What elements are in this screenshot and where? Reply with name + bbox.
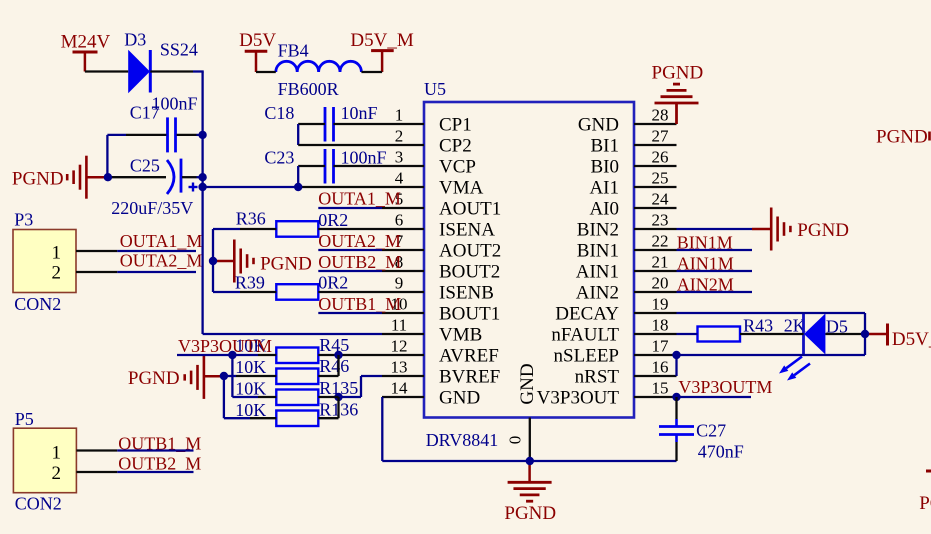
svg-text:BVREF: BVREF: [439, 367, 500, 388]
svg-text:ISENA: ISENA: [439, 220, 495, 241]
svg-text:100nF: 100nF: [341, 148, 387, 168]
U5 pin 24 (AI0): [589, 190, 676, 220]
svg-text:nFAULT: nFAULT: [551, 325, 619, 346]
svg-text:BI1: BI1: [591, 136, 620, 157]
wire C23 right to pin 3: [334, 165, 383, 167]
svg-text:D5V_M: D5V_M: [350, 30, 413, 51]
svg-text:BOUT1: BOUT1: [439, 304, 500, 325]
U5 pin 23 (BIN2): [577, 211, 677, 241]
wire pin 13 BVREF step: [339, 376, 383, 397]
junction PGND-C17-C25: [104, 173, 112, 181]
wire OUTA2_M (pin 7): [318, 249, 382, 251]
svg-text:11: 11: [391, 316, 407, 335]
svg-text:2: 2: [52, 263, 62, 284]
svg-text:10K: 10K: [235, 379, 266, 399]
wire R45 left: [232, 354, 276, 356]
wire D5V to FB4: [256, 71, 276, 73]
resistor R136: [276, 411, 318, 427]
ground PGND (earth, bottom): [504, 461, 556, 524]
svg-text:CON2: CON2: [15, 494, 62, 514]
wire OUTB2_M (pin 8): [318, 270, 382, 272]
wire V3P3OUT rail: [231, 355, 233, 397]
svg-text:VMB: VMB: [439, 325, 482, 346]
svg-text:CP2: CP2: [439, 136, 472, 157]
svg-text:2: 2: [395, 127, 404, 146]
svg-text:OUTA1_M: OUTA1_M: [318, 189, 401, 209]
wire C25 right: [182, 176, 203, 178]
wire V3P3OUTM stub: [177, 354, 232, 356]
svg-text:nRST: nRST: [575, 367, 620, 388]
junction C17-rail: [198, 131, 206, 139]
svg-text:AIN2: AIN2: [576, 283, 619, 304]
U5 pin 11 (VMB): [382, 316, 482, 346]
svg-text:OUTB2_M: OUTB2_M: [118, 454, 201, 474]
svg-text:PGND: PGND: [652, 63, 704, 84]
svg-text:OUTA2_M: OUTA2_M: [318, 231, 401, 251]
svg-text:BIN2: BIN2: [577, 220, 619, 241]
power D5V_M (top): [350, 30, 413, 72]
U5 pin 14 (GND): [382, 379, 480, 409]
wire PGND rail (divider): [223, 376, 225, 418]
U5 pin 12 (AVREF): [382, 337, 499, 367]
capacitor C27: [659, 427, 694, 435]
wire R36 left: [213, 228, 276, 230]
U5 pin 19 (DECAY): [555, 295, 676, 325]
svg-text:DECAY: DECAY: [555, 304, 619, 325]
svg-text:GND: GND: [439, 388, 480, 409]
U5 pin 16 (nRST): [575, 358, 677, 388]
U5 pin 26 (BI0): [591, 148, 677, 178]
wire OUTA2_M (P3): [117, 271, 196, 273]
svg-text:470nF: 470nF: [698, 442, 744, 462]
svg-text:R43: R43: [743, 316, 773, 336]
U5 pin 2 (CP2): [382, 127, 472, 157]
U5 pin 9 (ISENB): [382, 274, 494, 304]
svg-text:OUTB1_M: OUTB1_M: [318, 294, 401, 314]
svg-text:U5: U5: [424, 79, 446, 99]
svg-text:PGND: PGND: [797, 220, 849, 241]
U5 pin 22 (BIN1): [577, 232, 677, 262]
wire C17 left: [107, 135, 166, 177]
wire C17 right: [177, 134, 203, 136]
power D5V: [239, 30, 276, 72]
svg-text:PGND: PGND: [876, 127, 928, 148]
U5 pin 0 (GND pad): [506, 363, 539, 461]
junction AVREF: [334, 351, 342, 359]
LED D5: [804, 313, 826, 355]
svg-text:17: 17: [652, 337, 670, 356]
svg-text:21: 21: [652, 253, 669, 272]
svg-text:OUTA2_M: OUTA2_M: [120, 251, 203, 271]
svg-text:V3P3OUT: V3P3OUT: [537, 388, 620, 409]
junction rail-VMA: [198, 183, 206, 191]
U5 pin 4 (VMA): [382, 169, 484, 199]
wire R135 left: [232, 396, 276, 398]
svg-text:22: 22: [652, 232, 669, 251]
wire pin 17 nSLEEP: [677, 354, 866, 356]
P3 pin 1: [76, 250, 117, 252]
svg-text:P5: P5: [15, 409, 34, 429]
resistor R43: [698, 327, 741, 342]
svg-text:C27: C27: [696, 421, 726, 441]
wire bottom GND bus: [382, 460, 676, 462]
junction sense-PGND: [209, 257, 217, 265]
ground PGND (near C25): [12, 156, 108, 199]
U5 pin 15 (V3P3OUT): [537, 379, 677, 409]
svg-text:4: 4: [395, 169, 404, 188]
svg-text:18: 18: [652, 316, 669, 335]
U5 pin 27 (BI1): [591, 127, 677, 157]
svg-text:100nF: 100nF: [152, 94, 198, 114]
wire pin 18 to R43: [677, 333, 698, 335]
svg-text:13: 13: [391, 358, 408, 377]
svg-text:23: 23: [652, 211, 669, 230]
wire C18 left to pin 2: [298, 124, 382, 145]
svg-text:R45: R45: [319, 335, 349, 355]
svg-text:10nF: 10nF: [341, 103, 378, 123]
svg-text:14: 14: [391, 379, 409, 398]
wire R43 to D5: [740, 333, 804, 335]
svg-text:VCP: VCP: [439, 157, 476, 178]
junction C23-VMA: [294, 183, 302, 191]
wire R135 right: [318, 396, 338, 398]
svg-text:20: 20: [652, 274, 669, 293]
capacitor C17: [168, 117, 176, 152]
wire C23 left to pin 4: [298, 166, 325, 187]
wire R45 right to pin 12: [318, 354, 382, 356]
U5 pin 1 (CP1): [382, 106, 472, 136]
wire R46 left: [224, 375, 276, 377]
svg-text:12: 12: [391, 337, 408, 356]
svg-text:V3P3OUTM: V3P3OUTM: [178, 336, 272, 356]
wire nRST to nSLEEP: [675, 355, 677, 376]
connector P5: [13, 428, 76, 493]
svg-text:1: 1: [52, 242, 62, 263]
wire R39 right: [318, 291, 382, 293]
ground PGND (earth, pin 28): [652, 63, 704, 125]
wire OUTB1_M (pin 10): [318, 312, 382, 314]
svg-text:6: 6: [395, 211, 404, 230]
U5 pin 25 (AI1): [589, 169, 676, 199]
svg-text:24: 24: [652, 190, 670, 209]
resistor R45: [276, 348, 318, 364]
svg-text:25: 25: [652, 169, 669, 188]
wire AIN1M (pin 21): [677, 270, 753, 272]
svg-text:CP1: CP1: [439, 115, 472, 136]
svg-text:FB600R: FB600R: [278, 79, 339, 99]
svg-text:3: 3: [395, 148, 404, 167]
svg-text:R46: R46: [319, 356, 349, 376]
U5 pin 10 (BOUT1): [382, 295, 500, 325]
power M24V: [61, 32, 111, 72]
wire R36 right: [318, 228, 382, 230]
ground PGND (divider): [128, 356, 224, 399]
wire C18 right to pin 1: [334, 123, 383, 125]
U5 pin 28 (GND): [578, 106, 677, 136]
svg-text:nSLEEP: nSLEEP: [554, 346, 619, 367]
svg-text:D5V: D5V: [239, 30, 276, 51]
wire pin 28 to earth: [675, 103, 678, 124]
svg-text:C18: C18: [264, 103, 294, 123]
svg-text:OUTB2_M: OUTB2_M: [318, 252, 401, 272]
svg-text:SS24: SS24: [160, 40, 198, 60]
resistor R135: [276, 390, 318, 406]
wire R39 left: [213, 291, 276, 293]
junction PGND-R46: [220, 372, 228, 380]
svg-text:0R2: 0R2: [318, 273, 348, 293]
svg-text:AOUT1: AOUT1: [439, 199, 501, 220]
svg-text:D3: D3: [124, 30, 146, 50]
connector P3: [13, 230, 76, 293]
U5 pin 20 (AIN2): [576, 274, 677, 304]
wire pin 14 GND down: [381, 397, 383, 461]
wire pin 19 DECAY: [677, 312, 866, 314]
svg-text:PGND: PGND: [260, 253, 312, 274]
diode D3: [128, 50, 150, 93]
wire OUTA1_M (P3): [117, 250, 196, 252]
wire V3P3OUT to C27: [675, 397, 677, 427]
wire D5V_M vertical: [864, 313, 866, 355]
wire OUTB1_M (P5): [117, 449, 193, 451]
svg-text:1: 1: [52, 442, 62, 463]
svg-text:10K: 10K: [235, 400, 266, 420]
svg-text:CON2: CON2: [14, 294, 61, 314]
svg-text:P3: P3: [14, 210, 33, 230]
U5 pin 5 (AOUT1): [382, 190, 501, 220]
P5 pin 2: [76, 471, 117, 473]
svg-text:PGND: PGND: [12, 169, 64, 190]
P5 pin 1: [76, 449, 117, 451]
svg-text:AI1: AI1: [589, 178, 619, 199]
wire sense rail: [212, 229, 214, 292]
wire FB4 to D5V_M: [361, 71, 382, 73]
svg-text:AVREF: AVREF: [439, 346, 499, 367]
svg-text:C23: C23: [264, 148, 294, 168]
svg-text:0R2: 0R2: [318, 210, 348, 230]
svg-text:0: 0: [506, 436, 525, 445]
U5 pin 3 (VCP): [382, 148, 476, 178]
svg-text:2: 2: [52, 463, 62, 484]
svg-text:BI0: BI0: [591, 157, 620, 178]
svg-text:M24V: M24V: [61, 32, 111, 53]
IC U5 DRV8841 body: [424, 102, 634, 418]
svg-text:PG: PG: [919, 493, 931, 514]
wire OUTA1_M (pin 5): [318, 207, 382, 209]
U5 pin 8 (BOUT2): [382, 253, 500, 283]
junction C25-rail: [198, 173, 206, 181]
svg-text:28: 28: [652, 106, 669, 125]
wire VM rail vertical: [201, 72, 203, 335]
svg-text:AI0: AI0: [589, 199, 619, 220]
wire BVREF to R136: [318, 397, 338, 418]
wire rail to pin 4 VMA: [203, 186, 382, 188]
wire pin 23 BIN2: [677, 228, 753, 230]
U5 pin 6 (ISENA): [382, 211, 495, 241]
svg-text:VMA: VMA: [439, 178, 484, 199]
wire OUTB2_M (P5): [117, 471, 193, 473]
junction BVREF: [334, 393, 342, 401]
U5 pin 17 (nSLEEP): [554, 337, 677, 367]
svg-text:AIN1: AIN1: [576, 262, 619, 283]
svg-text:PGND: PGND: [128, 368, 180, 389]
svg-text:GND: GND: [517, 363, 538, 404]
wire D5 to D5V_M node: [825, 333, 865, 335]
wire AVREF to R46: [318, 355, 338, 376]
svg-text:26: 26: [652, 148, 669, 167]
svg-text:220uF/35V: 220uF/35V: [111, 198, 193, 218]
svg-text:27: 27: [652, 127, 670, 146]
svg-text:R36: R36: [236, 209, 266, 229]
svg-text:19: 19: [652, 295, 669, 314]
wire AIN2M (pin 20): [677, 291, 753, 293]
ground PGND (pin 23): [752, 208, 849, 251]
capacitor C23: [325, 149, 334, 184]
power symbol (bottom right, clipped): [919, 471, 931, 514]
U5 pin 21 (AIN1): [576, 253, 677, 283]
P3 pin 2: [76, 271, 117, 273]
svg-text:AOUT2: AOUT2: [439, 241, 501, 262]
svg-text:OUTA1_M: OUTA1_M: [120, 231, 203, 251]
svg-text:FB4: FB4: [278, 41, 309, 61]
wire rail to pin 11 VMB: [203, 333, 382, 335]
junction nSLEEP: [672, 351, 680, 359]
resistor R36: [276, 221, 318, 237]
svg-text:BOUT2: BOUT2: [439, 262, 500, 283]
junction V3P3OUT: [672, 393, 680, 401]
capacitor C25: [167, 159, 198, 194]
svg-text:C25: C25: [130, 156, 160, 176]
junction GND pad: [526, 457, 534, 465]
svg-text:GND: GND: [578, 115, 619, 136]
svg-text:R39: R39: [235, 273, 265, 293]
svg-text:ISENB: ISENB: [439, 283, 494, 304]
svg-text:DRV8841: DRV8841: [426, 430, 499, 450]
wire PGND to C25: [108, 176, 166, 178]
capacitor C18: [325, 107, 334, 142]
svg-text:PGND: PGND: [504, 503, 556, 524]
svg-text:9: 9: [395, 274, 404, 293]
wire M24V to D3: [85, 70, 128, 72]
wire C27 to GND bus: [675, 435, 678, 462]
D5 LED arrows: [779, 357, 810, 381]
junction V3P3OUTM-R45: [228, 351, 236, 359]
power D5V_M (right): [865, 324, 931, 351]
resistor R46: [276, 369, 318, 385]
wire pin 15 V3P3OUT: [677, 396, 752, 398]
U5 pin 13 (BVREF): [382, 358, 500, 388]
wire BIN1M (pin 22): [677, 249, 753, 251]
svg-text:10K: 10K: [235, 357, 266, 377]
svg-text:BIN1: BIN1: [577, 241, 619, 262]
U5 pin 7 (AOUT2): [382, 232, 501, 262]
svg-text:15: 15: [652, 379, 669, 398]
resistor R39: [276, 284, 318, 300]
U5 pin 18 (nFAULT): [551, 316, 676, 346]
svg-text:16: 16: [652, 358, 669, 377]
svg-text:D5V_M: D5V_M: [892, 329, 931, 350]
wire D3 cathode to rail: [150, 70, 203, 72]
junction D5V_M node: [861, 330, 869, 338]
ground PGND (right edge, clipped): [876, 127, 930, 148]
svg-text:V3P3OUTM: V3P3OUTM: [678, 377, 772, 397]
inductor FB4: [276, 61, 362, 72]
wire R136 left: [224, 417, 276, 419]
svg-text:1: 1: [395, 106, 404, 125]
ground PGND (sense resistors): [213, 240, 312, 283]
